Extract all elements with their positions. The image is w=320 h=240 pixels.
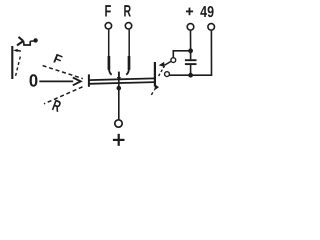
junction dot bottom: [188, 73, 193, 78]
aux linkage dashed: [158, 66, 165, 78]
wire plus terminal down: [190, 31, 192, 51]
svg-text:49: 49: [200, 4, 214, 21]
contact blade F: [108, 56, 111, 70]
slider right end bar: [154, 62, 156, 87]
terminal 49 circle: [208, 24, 215, 31]
wire junction to capacitor: [190, 51, 192, 60]
actuation arrow on lever: [13, 49, 18, 52]
label plus bottom: [113, 139, 125, 141]
contact blade R: [128, 56, 131, 70]
wire R stem: [128, 30, 130, 57]
wire capacitor to junction bottom: [190, 65, 192, 75]
aux contact lower circle: [165, 72, 170, 77]
manual actuator key icon: [17, 37, 37, 46]
svg-text:F: F: [105, 3, 112, 21]
slider bridge upper bar: [89, 78, 155, 80]
slider left end bar: [88, 74, 90, 86]
slider bridge lower bar: [89, 82, 155, 84]
capacitor C: [185, 59, 197, 61]
terminal plus circle top: [187, 24, 194, 31]
actuator lever: [11, 46, 13, 79]
wire aux upper to junction: [173, 51, 190, 58]
wire F stem: [108, 30, 110, 57]
position arrow 0: [39, 80, 73, 82]
aux contact upper circle: [171, 58, 176, 63]
aux switch blade: [165, 61, 171, 65]
terminal plus circle bottom: [115, 120, 122, 127]
svg-text:R: R: [123, 3, 131, 21]
center plus contact stub: [118, 72, 120, 78]
wire aux lower to 49: [170, 31, 212, 75]
aux linkage arrow: [154, 85, 159, 91]
label plus top: [186, 10, 193, 12]
junction dot top: [188, 48, 193, 53]
terminal R circle: [125, 23, 131, 29]
terminal F circle: [105, 23, 111, 29]
position dashed line R: [44, 87, 83, 104]
lever travel dashed arc: [15, 57, 20, 77]
position dashed line F: [43, 66, 83, 79]
wire through bridge: [118, 80, 120, 120]
junction dot center: [117, 86, 122, 91]
svg-text:0: 0: [29, 71, 38, 91]
